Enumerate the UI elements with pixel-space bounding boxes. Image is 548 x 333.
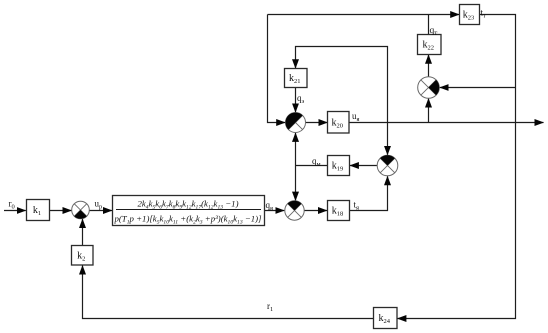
wire summer J1 to k20 — [306, 122, 328, 124]
block k1 — [27, 200, 50, 221]
wire S1 to transfer-function box — [89, 210, 112, 212]
wire node up into summer J1 — [295, 133, 297, 166]
block k2 — [72, 246, 94, 266]
wire k18 to summer J3 (right then up) — [350, 176, 388, 210]
block k21 — [285, 69, 308, 88]
wire summer J3 to k19 — [350, 165, 377, 167]
wire node down into summer J2 — [295, 166, 297, 201]
wire k23 output down right side to k24 — [397, 15, 515, 319]
wire u-branch down to summer J3 — [387, 123, 389, 155]
transfer function block W(p) — [113, 196, 265, 226]
block k19 — [328, 156, 350, 176]
wire right side branch into multiplier M1 — [440, 87, 516, 89]
wire k21 to summer J1 — [295, 88, 297, 113]
wire multiplier M1 to k22 — [428, 55, 430, 77]
wire top line to k23 — [268, 14, 460, 16]
block k22 — [418, 35, 442, 55]
block k23 — [460, 5, 480, 25]
wire u-branch up to multiplier M1 — [428, 99, 430, 123]
wire r0 input to k1 — [4, 210, 26, 212]
multiplier M1 — [418, 77, 440, 99]
block k24 — [374, 308, 398, 329]
wire k1 to summer S1 — [50, 210, 72, 212]
wire summer J2 to k18 — [304, 210, 327, 212]
summing junction J3 — [377, 155, 398, 176]
wire transfer-function box to summer J2 — [265, 210, 285, 212]
summing junction J2 — [285, 201, 304, 220]
summing junction J1 — [285, 112, 305, 132]
summing junction S1 — [72, 201, 90, 219]
wire k19 output to node between J1 and J2 — [296, 165, 328, 167]
wire k2 to summer S1 — [82, 219, 84, 246]
wire k22 up to top line — [428, 15, 430, 35]
wire u-branch up and left to k21 (feedback loop) — [296, 47, 388, 123]
block k18 — [328, 201, 350, 221]
wire k20 output u to right edge — [349, 122, 544, 124]
block k20 — [328, 112, 350, 134]
wire top line left branch down to summer J1 — [268, 15, 286, 123]
wire k24 output left and up to k2 — [83, 266, 374, 319]
